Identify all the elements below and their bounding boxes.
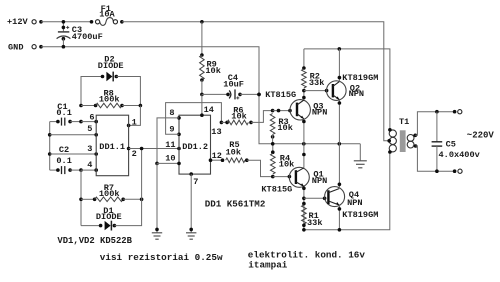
- wire Q1 base: [271, 175, 291, 179]
- svg-text:33k: 33k: [307, 218, 322, 228]
- capacitor C5: [432, 110, 443, 173]
- resistor R3: [270, 114, 275, 144]
- svg-text:itampai: itampai: [248, 259, 287, 270]
- svg-text:8: 8: [169, 108, 174, 118]
- wire Q4 base: [304, 197, 327, 201]
- label C2: [59, 145, 69, 155]
- wire D2 anode: [81, 77, 103, 106]
- svg-text:100k: 100k: [99, 189, 120, 199]
- svg-text:visi rezistoriai 0.25w: visi rezistoriai 0.25w: [100, 252, 223, 263]
- ground symbol mid: [354, 144, 367, 168]
- label Q4: [349, 190, 359, 200]
- wire bottom rail: [302, 152, 390, 232]
- wire R2 top line: [304, 47, 390, 130]
- wire pin10: [155, 162, 181, 166]
- transformer T1 core: [400, 130, 406, 152]
- svg-text:GND: GND: [8, 43, 23, 53]
- label R8 value: [99, 94, 120, 104]
- label D1: [103, 206, 113, 216]
- wire D2 cathode to pin1 rail: [116, 77, 140, 106]
- svg-text:4700uF: 4700uF: [72, 32, 103, 42]
- label pin 4: [87, 160, 92, 170]
- svg-text:KT815G: KT815G: [261, 185, 292, 195]
- label Q3 type: [265, 90, 296, 100]
- resistor R6: [220, 111, 273, 125]
- transistor Q1: [289, 167, 309, 187]
- wire Q1 emitter: [302, 186, 306, 229]
- svg-text:KT819GM: KT819GM: [342, 73, 378, 83]
- label R7: [104, 183, 114, 193]
- wire Q1 collector: [302, 144, 306, 168]
- junction +12V/R9: [200, 20, 204, 24]
- ic DD1.2 box: [179, 115, 211, 174]
- terminal output top: [453, 110, 462, 114]
- transformer T1 secondary: [407, 134, 417, 149]
- label Q2: [350, 83, 360, 93]
- label pin 10: [165, 154, 175, 164]
- wire Q4 collector: [338, 144, 342, 189]
- svg-text:DD1 K561TM2: DD1 K561TM2: [205, 199, 266, 210]
- wire pin14: [200, 93, 204, 117]
- transformer T1 primary: [387, 128, 396, 154]
- svg-text:~220V: ~220V: [467, 131, 495, 141]
- wire pin8: [157, 116, 181, 163]
- note capacitors 2: [248, 259, 287, 270]
- svg-text:NPN: NPN: [347, 198, 362, 208]
- label Q1 npn: [312, 176, 327, 186]
- transistor Q4: [325, 187, 345, 207]
- svg-text:KT815G: KT815G: [265, 90, 296, 100]
- capacitor C2: [50, 166, 98, 174]
- svg-text:10k: 10k: [205, 66, 220, 76]
- wire GND rail: [41, 47, 360, 144]
- wire Q4 emitter: [338, 205, 342, 230]
- wire left rail C1-C2: [49, 122, 51, 171]
- label pin 7: [193, 177, 198, 187]
- label pin 14: [204, 105, 214, 115]
- label F1: [101, 4, 111, 14]
- label pin 8: [169, 108, 174, 118]
- ic DD1.1 box: [96, 115, 128, 176]
- svg-text:0.1: 0.1: [56, 156, 71, 166]
- wire +12V rail left: [41, 21, 92, 23]
- ground symbol left: [152, 233, 162, 239]
- wire pin9 over the top: [166, 103, 222, 137]
- label pin 3: [87, 144, 92, 154]
- svg-text:DIODE: DIODE: [98, 61, 124, 71]
- transistor Q2: [327, 81, 347, 101]
- svg-text:4: 4: [87, 160, 92, 170]
- wire secondary bottom: [416, 146, 455, 171]
- label F1 value 10A: [99, 10, 115, 20]
- label R1: [309, 211, 319, 221]
- svg-text:11: 11: [165, 140, 175, 150]
- label pin 5: [87, 124, 92, 134]
- svg-text:9: 9: [169, 125, 174, 135]
- svg-text:C5: C5: [446, 140, 456, 150]
- wire pin8/10 to ground: [155, 163, 159, 232]
- capacitor C1: [50, 118, 98, 126]
- wire Q3 collector: [302, 91, 306, 100]
- svg-text:6: 6: [89, 112, 94, 122]
- wire pin4 rail to R7/D1: [80, 170, 82, 226]
- label Q3: [313, 101, 323, 111]
- label Q4 type: [342, 210, 378, 220]
- label R2: [310, 72, 320, 82]
- wire pin3: [48, 152, 98, 156]
- junction ground rail Q3/Q1 column: [302, 142, 306, 146]
- label pin 12: [212, 151, 222, 161]
- label VD1 VD2 type: [57, 236, 132, 246]
- label R2 value: [309, 78, 324, 88]
- label +12V input: [7, 17, 28, 27]
- svg-text:10A: 10A: [99, 10, 115, 20]
- svg-text:7: 7: [193, 177, 198, 187]
- junction ground rail R3/R4: [271, 142, 275, 146]
- svg-text:DD1.1: DD1.1: [99, 142, 125, 152]
- resistor R7: [79, 197, 143, 202]
- label R1 value: [307, 218, 322, 228]
- wire pin5: [48, 133, 98, 137]
- label Q4 npn: [347, 198, 362, 208]
- label C4 value: [223, 79, 244, 89]
- svg-text:C2: C2: [59, 145, 69, 155]
- label Q3 npn: [312, 107, 327, 117]
- label pin 13: [211, 127, 221, 137]
- svg-text:NPN: NPN: [349, 89, 364, 99]
- label R6 value: [231, 112, 246, 122]
- label Q2 npn: [349, 89, 364, 99]
- label R9: [207, 60, 217, 70]
- label D2 type: [98, 61, 124, 71]
- junction ground rail Q2/Q4 column: [338, 142, 342, 146]
- junction GND/C4: [257, 93, 261, 97]
- svg-text:DD1.2: DD1.2: [182, 142, 208, 152]
- label C1: [57, 102, 67, 112]
- resistor R5: [226, 158, 273, 177]
- label pin 11: [165, 140, 175, 150]
- wire Q3 base: [271, 109, 292, 113]
- label Q1: [313, 170, 323, 180]
- diode D1: [81, 199, 142, 230]
- svg-text:10: 10: [165, 154, 175, 164]
- wire pin2 to pin11: [127, 147, 181, 151]
- terminal +12V: [32, 20, 43, 24]
- note resistors: [100, 252, 223, 263]
- resistor R2: [302, 49, 307, 92]
- label R5 value: [226, 147, 241, 157]
- label pin 2: [132, 149, 137, 159]
- label GND input: [8, 43, 23, 53]
- svg-text:+12V: +12V: [7, 17, 28, 27]
- label pin 1: [132, 117, 137, 127]
- label R5: [229, 140, 239, 150]
- svg-text:4.0x400v: 4.0x400v: [439, 150, 480, 160]
- label pin 6: [89, 112, 94, 122]
- resistor R1: [302, 202, 307, 227]
- label T1: [399, 117, 409, 127]
- terminal output bottom: [453, 169, 462, 173]
- label C1 value: [56, 108, 71, 118]
- label D1 type: [96, 212, 122, 222]
- wire Q2 base: [304, 89, 329, 93]
- label R4 value: [279, 159, 294, 169]
- transistor Q3: [290, 100, 310, 120]
- svg-text:NPN: NPN: [312, 176, 327, 186]
- label DD1 type: [205, 199, 266, 210]
- svg-text:10k: 10k: [231, 112, 246, 122]
- wire +12V rail to transformer: [122, 22, 389, 141]
- svg-text:10k: 10k: [277, 123, 292, 133]
- svg-text:3: 3: [87, 144, 92, 154]
- svg-text:13: 13: [211, 127, 221, 137]
- label C3 value: [72, 32, 103, 42]
- label R9 value: [205, 66, 220, 76]
- ground symbol pin7: [186, 233, 196, 239]
- capacitor C3: [57, 20, 71, 49]
- label Q2 type: [342, 73, 378, 83]
- svg-text:14: 14: [204, 105, 214, 115]
- resistor R9: [200, 22, 205, 95]
- resistor R8: [79, 103, 142, 108]
- fuse F1: [90, 18, 124, 26]
- label output voltage: [467, 131, 495, 141]
- resistor R4: [271, 144, 276, 174]
- svg-text:10uF: 10uF: [223, 79, 244, 89]
- svg-text:1: 1: [132, 117, 137, 127]
- label DD1.2: [182, 142, 208, 152]
- svg-text:10k: 10k: [279, 159, 294, 169]
- svg-text:NPN: NPN: [312, 107, 327, 117]
- label R3 value: [277, 123, 292, 133]
- wire Q3 emitter: [302, 119, 306, 144]
- label Q1 type: [261, 185, 292, 195]
- svg-text:2: 2: [132, 149, 137, 159]
- svg-text:10k: 10k: [226, 147, 241, 157]
- label DD1.1: [99, 142, 125, 152]
- svg-text:0.1: 0.1: [56, 108, 71, 118]
- label R6: [233, 105, 243, 115]
- svg-text:DIODE: DIODE: [96, 212, 122, 222]
- wire secondary top: [415, 112, 454, 136]
- label pin 9: [169, 125, 174, 135]
- wire Q2 collector: [338, 49, 342, 82]
- label R7 value: [99, 189, 120, 199]
- label C5 value: [439, 150, 480, 160]
- label D2: [104, 54, 114, 64]
- svg-text:T1: T1: [399, 117, 409, 127]
- capacitor C4: [202, 89, 261, 99]
- svg-text:100k: 100k: [99, 94, 120, 104]
- label C2 value: [56, 156, 71, 166]
- wire pin12: [209, 158, 225, 162]
- svg-text:KT819GM: KT819GM: [342, 210, 378, 220]
- label C4: [228, 73, 238, 83]
- terminal GND: [32, 45, 43, 49]
- wire pin1 connection: [127, 106, 141, 128]
- label R4: [280, 153, 290, 163]
- svg-text:33k: 33k: [309, 78, 324, 88]
- svg-text:VD1,VD2 KD522B: VD1,VD2 KD522B: [57, 236, 132, 246]
- note capacitors: [248, 250, 366, 261]
- label R8: [104, 88, 114, 98]
- wire pin7 to ground: [189, 172, 193, 233]
- svg-text:12: 12: [212, 151, 222, 161]
- wire Q2 emitter: [338, 100, 342, 144]
- diode D2: [101, 72, 118, 82]
- label C3: [72, 25, 82, 35]
- svg-text:5: 5: [87, 124, 92, 134]
- label R3: [278, 117, 288, 127]
- wire pin2 node rail: [141, 149, 143, 200]
- label C5: [446, 140, 456, 150]
